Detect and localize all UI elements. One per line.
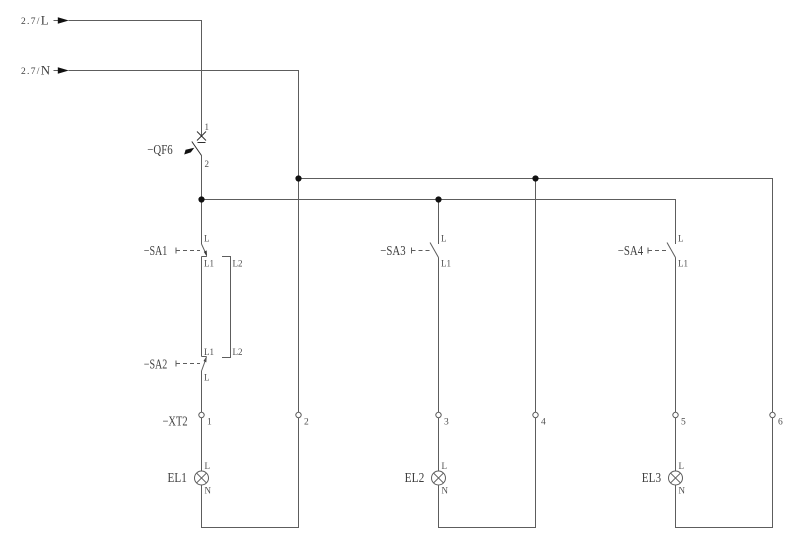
terminal XT2 pin 3 <box>436 412 441 417</box>
wire L2 link between SA1 and SA2 <box>222 257 231 358</box>
wire SA2 L down to terminal 1 <box>201 371 203 412</box>
svg-text:1: 1 <box>207 418 212 428</box>
svg-text:EL3: EL3 <box>642 470 662 485</box>
svg-text:−SA4: −SA4 <box>618 243 643 258</box>
wire SA4 L1 down to terminal 5 <box>675 258 677 413</box>
svg-text:5: 5 <box>681 418 686 428</box>
svg-text:EL1: EL1 <box>168 470 187 485</box>
wire terminal 5 to lamp EL3 <box>675 418 677 471</box>
svg-text:L: L <box>442 461 448 471</box>
svg-text:N: N <box>679 486 686 496</box>
wire lamp EL1 N return to terminal 2 <box>202 418 299 528</box>
wire N bus junction down to terminal 4 <box>535 179 537 413</box>
svg-text:L: L <box>441 234 447 244</box>
wire lamp EL2 N return to terminal 4 <box>439 418 536 528</box>
svg-text:−SA2: −SA2 <box>144 356 168 371</box>
wire N bus: from N drop right, corner down to terminal 6 <box>299 179 773 413</box>
net 2.7/N source arrow <box>54 67 69 74</box>
svg-text:N: N <box>205 486 212 496</box>
leader SA2 dashed link <box>176 363 200 365</box>
svg-text:4: 4 <box>541 418 546 428</box>
junction on L bus at QF6 drop <box>198 196 204 202</box>
svg-text:L1: L1 <box>204 259 214 269</box>
wire terminal 3 to lamp EL2 <box>438 418 440 471</box>
lamp EL2 <box>432 471 446 485</box>
junction on L bus at SA3 branch <box>435 196 441 202</box>
svg-text:L1: L1 <box>441 259 451 269</box>
wire terminal 1 to lamp EL1 <box>201 418 203 471</box>
wire N feed: horizontal then down to N bus <box>69 71 299 179</box>
svg-text:N: N <box>442 486 449 496</box>
switch SA1 blade <box>202 244 208 257</box>
junction on N bus at terminal 4 branch <box>532 175 538 181</box>
svg-text:2: 2 <box>205 159 210 169</box>
terminal XT2 pin 2 <box>296 412 301 417</box>
wire N drop at x=298.5 down to terminal 2 <box>298 179 300 413</box>
svg-text:3: 3 <box>444 418 449 428</box>
terminal XT2 pin 5 <box>673 412 678 417</box>
leader SA1 dashed link <box>176 250 200 252</box>
wire SA1 L1 to SA2 L1 <box>201 257 203 357</box>
svg-text:6: 6 <box>778 418 783 428</box>
terminal XT2 pin 1 <box>199 412 204 417</box>
svg-text:L2: L2 <box>233 347 243 357</box>
svg-text:1: 1 <box>205 122 210 132</box>
terminal XT2 pin 4 <box>533 412 538 417</box>
leader SA3 dashed link <box>412 250 432 252</box>
junction on N bus at N drop <box>295 175 301 181</box>
svg-text:−SA3: −SA3 <box>380 243 405 258</box>
breaker QF6 <box>184 132 206 156</box>
wire SA3 L1 down to terminal 3 <box>438 258 440 413</box>
svg-text:L: L <box>679 461 685 471</box>
wire QF6 pin2 down to L bus junction and SA1 pin L <box>201 156 203 245</box>
leader SA4 dashed link <box>648 250 669 252</box>
svg-text:−SA1: −SA1 <box>144 243 168 258</box>
svg-text:EL2: EL2 <box>405 470 425 485</box>
lamp EL1 <box>195 471 209 485</box>
wire L bus: from QF6 junction right, corner down to SA4 <box>202 200 676 245</box>
switch SA2 blade <box>202 356 207 371</box>
svg-text:2: 2 <box>304 418 309 428</box>
wire L bus junction down to SA3 pin L <box>438 200 440 245</box>
net 2.7/L source arrow <box>54 17 69 24</box>
lamp EL3 <box>669 471 683 485</box>
wire L feed: horizontal then down to QF6 pin 1 <box>69 21 202 138</box>
svg-text:L1: L1 <box>204 347 214 357</box>
switch SA4 blade <box>667 243 676 258</box>
svg-text:L: L <box>678 234 684 244</box>
terminal XT2 pin 6 <box>770 412 775 417</box>
svg-text:−QF6: −QF6 <box>147 142 172 157</box>
wire lamp EL3 N return to terminal 6 <box>676 418 773 528</box>
svg-text:L1: L1 <box>678 259 688 269</box>
svg-text:L: L <box>204 234 210 244</box>
switch SA3 blade <box>430 243 439 258</box>
svg-text:−XT2: −XT2 <box>163 414 188 429</box>
svg-text:L: L <box>205 461 211 471</box>
svg-text:L2: L2 <box>233 259 243 269</box>
svg-text:L: L <box>204 373 210 383</box>
